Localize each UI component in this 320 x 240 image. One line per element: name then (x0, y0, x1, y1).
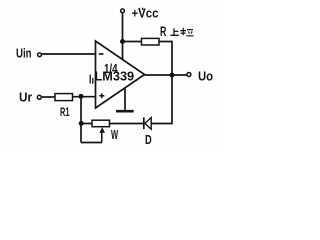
svg-text:W: W (111, 128, 118, 143)
wire resistor R to output corner and down to diode corner (151, 42, 172, 124)
junction dot output node (170, 73, 175, 78)
svg-text:+Vcc: +Vcc (132, 6, 159, 21)
terminal Uin (38, 53, 42, 57)
op-amp minus sign (99, 53, 104, 55)
svg-text:Uo: Uo (198, 69, 213, 84)
wire potentiometer to diode cathode (110, 123, 144, 125)
wire Vcc junction to resistor R (123, 41, 142, 43)
svg-text:LM339: LM339 (95, 68, 135, 83)
terminal Ur (37, 95, 41, 99)
label shang (pull-up) char 1 (170, 28, 178, 35)
junction node A dot (79, 94, 84, 99)
resistor R pull-up (142, 38, 160, 45)
junction dot on Vcc wire (120, 39, 125, 44)
stray bracket marks left of LM339 (90, 75, 93, 84)
resistor R1 (55, 94, 73, 101)
svg-text:Uin: Uin (16, 47, 31, 61)
wire R1 to non-inverting input (73, 96, 95, 98)
ground bar thick (116, 110, 133, 113)
diode D cathode bar (143, 117, 145, 129)
diode D triangle (145, 118, 151, 130)
svg-text:Ur: Ur (19, 90, 32, 105)
terminal Uo (187, 73, 191, 77)
wire node A down to node B (80, 96, 82, 142)
stray tick marks above Vcc V (139, 8, 142, 10)
svg-text:D: D (145, 134, 152, 148)
terminal +Vcc (121, 9, 125, 13)
wire op-amp output to terminal Uo (145, 74, 187, 76)
svg-text:R: R (160, 25, 166, 39)
wire node B to potentiometer W (81, 123, 92, 125)
op-amp plus sign (99, 93, 104, 98)
ground (116, 88, 133, 111)
potentiometer W body (92, 120, 110, 127)
wiper arrow of potentiometer W (101, 131, 103, 143)
wire Ur to resistor R1 (42, 96, 56, 98)
wire Uin to inverting input (42, 53, 95, 55)
label la (pull-up) char 2 (180, 28, 193, 36)
op-amp U1 triangle 1/4 LM339 (96, 41, 145, 108)
svg-text:R1: R1 (60, 106, 70, 119)
wire +Vcc down to op-amp top edge (122, 13, 124, 60)
wire wiper bottom return to node B leg (81, 142, 102, 144)
stray period after LM339 (136, 79, 138, 81)
junction node B dot (79, 121, 84, 126)
